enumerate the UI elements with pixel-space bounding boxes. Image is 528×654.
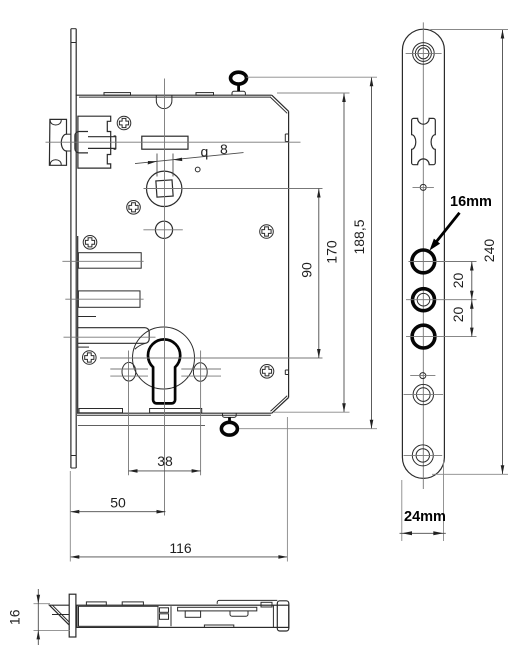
svg-text:170: 170: [324, 240, 340, 264]
key seal tab top: [232, 91, 245, 95]
latch bolt head (outside plate): [49, 119, 71, 165]
middle screw hole: [404, 384, 444, 404]
svg-text:38: 38: [157, 453, 173, 469]
svg-text:8: 8: [220, 141, 228, 157]
slot bar 2: [65, 291, 143, 307]
svg-text:24mm: 24mm: [404, 509, 446, 525]
svg-text:20: 20: [450, 273, 466, 289]
cylinder boss circle: [133, 327, 195, 389]
bottom screw hole: [404, 445, 443, 466]
centerline vertical main: [164, 79, 166, 516]
lock case outline: [76, 95, 289, 415]
extension line 240 top: [430, 29, 508, 31]
dimension 240: [481, 30, 504, 475]
right edge notch upper: [285, 134, 288, 142]
cover plate strip: [178, 607, 257, 611]
U cutout below top edge: [156, 95, 172, 108]
top edge tab right: [196, 93, 214, 96]
extension line case top right: [277, 92, 350, 94]
inner small parts cluster: [160, 606, 172, 626]
svg-text:16: 16: [7, 609, 23, 625]
right edge notch lower: [285, 370, 288, 375]
svg-text:16mm: 16mm: [450, 194, 492, 210]
bold hole 3: [412, 325, 435, 348]
svg-text:50: 50: [110, 495, 126, 511]
top tab 2: [122, 602, 143, 605]
centerline latch: [46, 141, 301, 143]
dimension 170: [324, 93, 346, 412]
fixing post left (ellipse): [110, 362, 148, 381]
dimension q 8 text: [201, 141, 229, 160]
small reference circle: [195, 167, 200, 172]
svg-text:188,5: 188,5: [351, 219, 367, 254]
slot bar 1: [62, 253, 143, 269]
small rect right: [261, 602, 272, 607]
screw C left: [83, 236, 97, 250]
dimension 20 lower: [450, 300, 474, 337]
follower square 8mm: [156, 180, 173, 197]
svg-text:90: 90: [299, 262, 315, 278]
latch cutout (bowtie): [412, 118, 436, 164]
extension line 240 bottom: [432, 473, 508, 475]
dimension 50: [70, 495, 165, 514]
bold hole 1 (16mm): [412, 250, 435, 273]
extension line left (plate): [69, 471, 71, 562]
latch housing box with corner notches: [78, 116, 111, 168]
top tab 1: [86, 602, 106, 605]
crosshair/extension hole 2: [406, 299, 477, 301]
lower parallel line: [78, 424, 205, 426]
faceplate outline rounded ends: [402, 29, 444, 478]
extension line 38 left: [128, 351, 130, 476]
crosshair/extension hole 1: [409, 261, 477, 263]
spindle hub rectangle: [142, 136, 188, 149]
svg-text:q: q: [201, 144, 209, 160]
dimension 20 upper: [450, 262, 474, 300]
body outline: [77, 605, 289, 627]
crosshair/extension hole 3: [406, 336, 477, 338]
dimension 16: [7, 589, 71, 645]
center bracket: [230, 611, 248, 616]
latch shaft: [88, 136, 116, 149]
faceplate bar: [69, 594, 76, 637]
dimension q 8 extension lines: [157, 154, 173, 177]
bottom edge tab right: [150, 409, 202, 413]
label 16mm arrow: [430, 213, 460, 251]
bottom edge tab left: [79, 409, 123, 413]
top edge tab left: [104, 93, 131, 96]
short ledge line: [78, 316, 96, 318]
svg-text:20: 20: [450, 307, 466, 323]
euro cylinder profile (bold): [148, 339, 180, 403]
top cover tab: [217, 600, 277, 604]
faceplate centerline: [422, 22, 424, 489]
latch wedge: [49, 605, 69, 625]
centerline follower: [144, 188, 323, 190]
dimension 188,5: [351, 77, 373, 429]
svg-text:116: 116: [169, 540, 192, 556]
bold hole 2: [413, 289, 435, 311]
deadbolt bar retracted: [64, 328, 156, 350]
top screw hole: [406, 43, 442, 65]
dimension 116: [70, 540, 287, 559]
screw A top: [117, 116, 131, 130]
low rect: [204, 625, 233, 628]
extension line key bottom: [239, 428, 377, 430]
screw D right: [260, 225, 274, 239]
small hole upper: [413, 184, 434, 190]
inner box: [79, 606, 159, 626]
key seal tab bottom: [223, 413, 237, 417]
dimension q 8 leader line: [135, 153, 244, 165]
svg-text:240: 240: [481, 239, 497, 263]
screw F lower-right: [260, 365, 274, 379]
small hole lower: [410, 373, 435, 379]
screw E lower-left: [83, 351, 97, 365]
faceplate edge-on (side strip): [71, 29, 76, 468]
extension line right (case edge): [286, 417, 288, 562]
centerline cylinder: [100, 357, 323, 359]
fixing post right (ellipse): [181, 363, 221, 382]
extension line case bottom right: [274, 411, 350, 413]
small bracket: [185, 611, 200, 617]
screw B mid-left: [127, 201, 141, 215]
key seal bottom (bold ring and stem): [221, 417, 237, 435]
key seal top (bold ring and stem): [231, 72, 247, 91]
latch tail through plate: [75, 132, 88, 153]
right end cap: [277, 601, 289, 631]
follower circle: [147, 171, 182, 206]
extension line key top: [247, 76, 378, 78]
circle below follower: [143, 221, 182, 238]
dimension 90: [299, 189, 321, 359]
dimension 24mm: [400, 460, 446, 541]
dimension 38: [129, 453, 201, 473]
extension line 38 right: [200, 351, 202, 476]
